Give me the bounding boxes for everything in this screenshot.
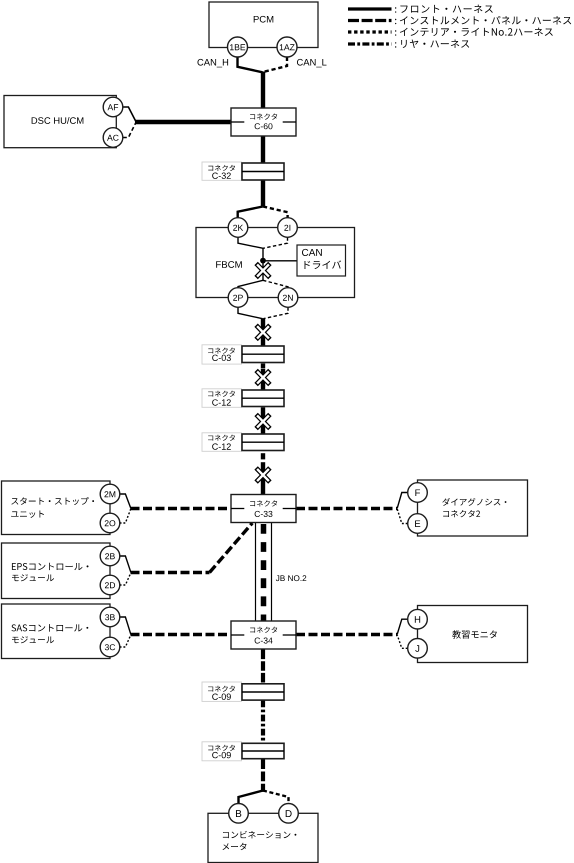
training monitor label (452, 630, 497, 638)
C-33 right stub (283, 508, 296, 510)
C-09 second label line2 (212, 752, 231, 758)
C-34 left stub (231, 634, 244, 636)
trunk behind twist 2 (261, 369, 265, 386)
pin 2B (100, 546, 120, 566)
inst panel harness EPS diagonal to C-33 (210, 523, 253, 573)
wire to pin E dotted (397, 509, 407, 524)
legend line interior light No.2 harness (348, 30, 392, 33)
wire from pin 2B (120, 556, 131, 572)
wire from pin 2D dotted (120, 573, 131, 585)
CAN_L net label (297, 59, 327, 67)
legend text interior light No.2 harness (400, 28, 553, 36)
combination meter label line2 (222, 843, 246, 850)
connector C-60 box (231, 108, 296, 136)
connector C-03 symbol (242, 346, 284, 363)
C-34 label line1 (250, 627, 277, 633)
twisted pair symbol in FBCM (256, 263, 270, 277)
wire to pin J dotted (397, 635, 407, 649)
front harness DSC to C-60 (135, 120, 231, 124)
C-12 second label line1 (208, 435, 235, 441)
CAN driver label line2 (304, 260, 341, 269)
C-09 first label line1 (208, 686, 235, 692)
wire to pin 2K (238, 207, 263, 218)
pin AF (103, 97, 123, 117)
pin 2P label (233, 295, 243, 301)
connector C-12 first label box (202, 389, 242, 408)
connector C-32 symbol (242, 163, 284, 180)
C-12 second symbol midline (242, 441, 284, 443)
connector C-09 first symbol (242, 684, 284, 700)
trunk dash C-12 to twist (261, 407, 265, 412)
pin AC (103, 128, 123, 148)
inst panel harness start-stop to C-33 (131, 507, 232, 510)
C-09 first symbol midline (242, 691, 284, 693)
wire 2I to junction dashed (263, 237, 287, 248)
C-60 left stub (231, 121, 244, 123)
pin 3C (100, 637, 120, 657)
wire CAN_H from pin 1BE (238, 57, 263, 73)
pin 2K (228, 218, 248, 238)
pin F label (415, 489, 420, 496)
legend colon 4 (395, 42, 396, 47)
DSC HU/CM module box (4, 96, 116, 148)
connector C-09 second label box (202, 742, 242, 761)
trunk twist 4 to C-33 (261, 462, 265, 495)
connector C-09 second symbol (242, 743, 284, 758)
pin B (229, 804, 249, 824)
pin 2I label (284, 225, 290, 231)
JB No.2 right rail (271, 523, 273, 621)
start-stop unit label line2 (11, 510, 44, 517)
pin AF label (108, 104, 119, 110)
C-03 label line2 (212, 355, 231, 361)
DSC HU/CM label (32, 117, 84, 124)
CAN_H net label (197, 59, 228, 67)
wire from pin 2O dotted (120, 509, 131, 523)
pin 2N label (283, 295, 293, 301)
connector C-33 box (231, 495, 296, 523)
C-03 label line1 (208, 348, 235, 354)
inst panel harness C-33 to diagnosis (296, 507, 397, 510)
legend line front harness (348, 7, 392, 10)
wire from pin 3C dotted (120, 635, 131, 647)
connector C-12 second label box (202, 433, 242, 452)
pin 3B label (105, 614, 115, 620)
pin J (408, 639, 428, 659)
wire through twist to split (262, 262, 264, 281)
pin H (408, 609, 428, 629)
inst panel harness through JB No.2 (261, 524, 267, 621)
pin D (279, 804, 299, 824)
pin 2D (100, 575, 120, 595)
C-34 label line2 (255, 637, 273, 643)
trunk behind twist 3 (261, 412, 265, 431)
JB No.2 label (276, 575, 306, 581)
pin AC label (107, 135, 119, 141)
pin D label (286, 810, 292, 817)
pin 1AZ (277, 37, 297, 57)
twisted pair symbol 3 (256, 414, 270, 428)
start-stop unit module box (2, 481, 111, 535)
legend text rear harness (401, 39, 469, 47)
pin 2D label (105, 582, 115, 588)
twisted pair symbol 4 (256, 468, 270, 482)
C-33 left stub (231, 508, 244, 510)
trunk dash twist to C-12 (261, 386, 265, 390)
combination meter box (208, 813, 318, 862)
wire to pin F (397, 493, 407, 509)
pin 3C label (105, 644, 115, 650)
C-03 symbol midline (242, 353, 284, 355)
wire from pin 2P (238, 307, 263, 318)
pin 3B (100, 607, 120, 627)
wire split to pin 2N dashed (263, 280, 288, 288)
C-32 label line2 (212, 173, 231, 179)
wire 2K to junction (238, 237, 263, 248)
C-09 first label line2 (212, 694, 231, 700)
CAN driver box (297, 245, 346, 276)
EPS control module label line2 (12, 574, 54, 581)
pin J label (415, 645, 419, 652)
JB No.2 left rail (255, 523, 257, 621)
pin H label (415, 616, 420, 623)
wire junction to CAN driver (263, 260, 297, 262)
SAS control module box (2, 604, 111, 659)
start-stop unit label line1 (11, 497, 94, 505)
pin 1BE label (230, 44, 245, 50)
inst panel harness C-34 to monitor (296, 633, 397, 636)
connector C-32 label box (202, 162, 242, 180)
EPS control module box (2, 543, 111, 599)
pin 2M label (104, 491, 115, 497)
trunk dash C-12 to twist 4 (261, 453, 265, 459)
C-32 label line1 (208, 165, 235, 171)
legend colon 2 (395, 19, 396, 24)
connector C-12 first symbol (242, 390, 284, 407)
connector C-03 label box (202, 345, 242, 364)
SAS control module label line1 (11, 624, 88, 631)
C-12 first symbol midline (242, 397, 284, 399)
C-09 second label line1 (208, 745, 235, 751)
trunk dash twist to C-12 second (261, 431, 265, 435)
legend colon 3 (395, 30, 396, 35)
diagnosis connector 2 label line2 (443, 510, 480, 517)
pin E label (415, 520, 420, 527)
combination meter label line1 (223, 831, 296, 839)
SAS control module label line2 (12, 636, 54, 643)
wire to pin H (397, 619, 407, 634)
junction node (260, 258, 266, 264)
C-33 label line1 (250, 500, 277, 506)
legend text front harness (400, 5, 492, 13)
pin 2B label (105, 553, 115, 559)
twisted pair symbol 1 (256, 325, 270, 339)
C-09 second symbol midline (242, 750, 284, 752)
pin 1BE (228, 37, 248, 57)
trunk FBCM to C-03 (261, 318, 265, 346)
wire from pin 2N dashed (263, 307, 288, 318)
diagnosis connector 2 box (418, 480, 528, 536)
EPS control module label line1 (12, 563, 89, 570)
C-60 right stub (283, 121, 296, 123)
rear harness C-09 to C-09 (261, 701, 265, 744)
PCM label (254, 16, 274, 23)
PCM module box (209, 2, 318, 48)
wire from pin 3B (120, 617, 131, 634)
wire split to pin B (239, 791, 264, 805)
wire split to pin D dashed (263, 791, 289, 805)
pin 1AZ label (280, 44, 295, 50)
connector C-34 box (231, 621, 296, 649)
wire CAN_L from pin 1AZ dashed (263, 57, 287, 72)
legend line rear harness (348, 42, 392, 45)
wire to pin 2I dashed (263, 207, 288, 218)
pin 2O label (105, 520, 116, 526)
inst panel harness C-34 to C-09 (261, 650, 265, 684)
pin F (408, 483, 428, 503)
legend text instrument panel harness (400, 16, 571, 25)
wire split to pin 2P (238, 280, 263, 288)
C-12 first label line2 (212, 399, 231, 405)
wire from pin 2M (120, 494, 131, 508)
harness C-09 to meter (261, 759, 265, 792)
C-12 second label line2 (212, 443, 231, 449)
C-33 label line2 (255, 511, 273, 517)
pin B label (236, 810, 241, 817)
CAN driver label line1 (302, 249, 322, 256)
C-60 label line2 (255, 123, 273, 129)
pin 2I (278, 218, 298, 238)
connector C-12 second symbol (242, 434, 284, 451)
FBCM module box (196, 228, 355, 298)
twisted pair symbol 2 (256, 370, 270, 384)
pin 2P (228, 288, 248, 308)
wire from pin AF (123, 107, 136, 122)
C-60 label line1 (250, 113, 277, 119)
inst panel harness EPS horizontal (131, 571, 210, 574)
C-34 right stub (283, 634, 296, 636)
wire junction vertical (262, 248, 264, 262)
C-32 symbol midline (242, 171, 284, 173)
legend line instrument panel harness (348, 19, 392, 22)
pin 2K label (233, 225, 243, 231)
wire from pin AC dashed (123, 122, 136, 137)
connector C-09 first label box (202, 682, 242, 701)
diagnosis connector 2 label line1 (442, 498, 506, 506)
pin 2M (100, 484, 120, 504)
pin 2O (100, 513, 120, 533)
pin 2N (278, 288, 298, 308)
trunk dash C-03 to twist (261, 364, 265, 369)
front harness trunk PCM to FBCM (261, 72, 265, 207)
C-12 first label line1 (208, 391, 235, 397)
inst panel harness SAS to C-34 (131, 633, 232, 636)
legend colon 1 (395, 7, 396, 12)
pin E (408, 514, 428, 534)
training monitor box (418, 606, 528, 663)
FBCM label (216, 261, 242, 268)
